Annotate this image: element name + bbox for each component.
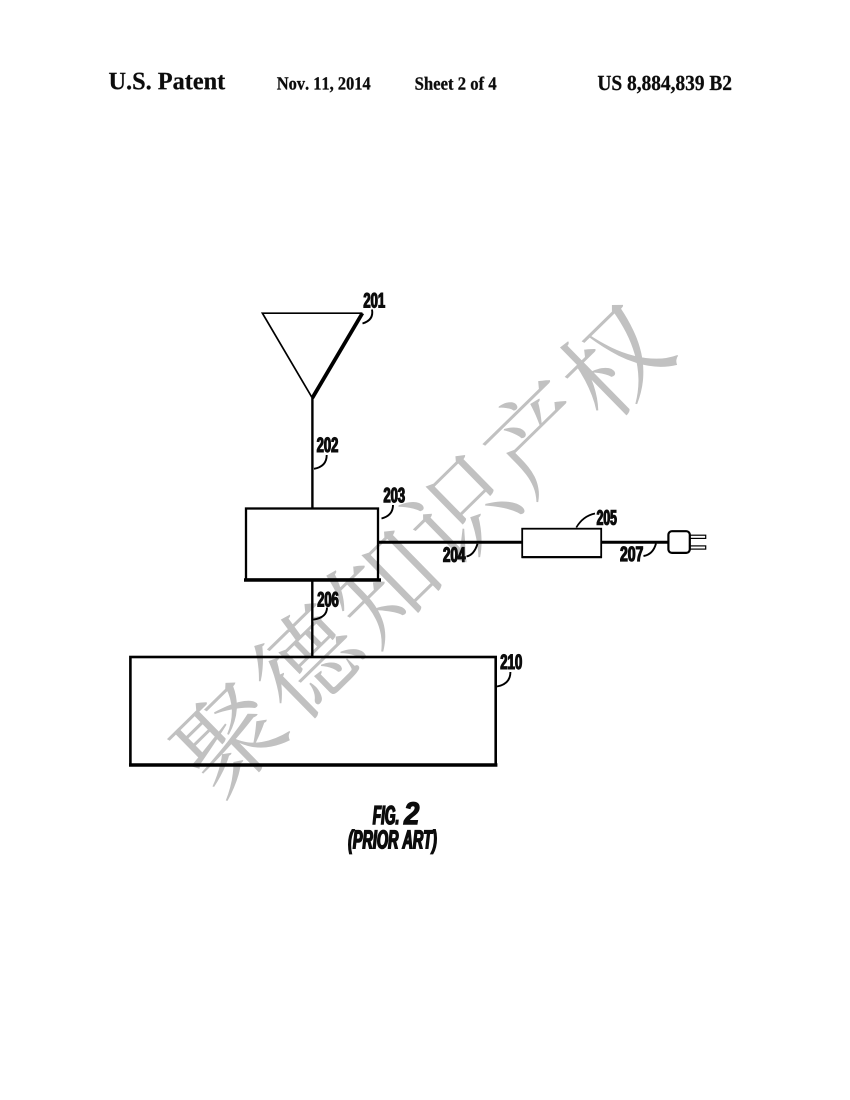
box 210	[129, 657, 497, 765]
leader 206	[314, 608, 328, 620]
wire 204	[379, 541, 522, 544]
leader 210	[497, 672, 510, 687]
wire 202	[311, 398, 313, 508]
box 203	[244, 509, 381, 581]
caption FIG.	[373, 806, 398, 825]
label 207	[621, 546, 643, 561]
label 202	[317, 437, 338, 452]
plug 207 body	[668, 531, 689, 553]
label 206	[318, 592, 339, 607]
leader 202	[314, 455, 327, 469]
leader 205	[576, 514, 595, 528]
label 201	[364, 293, 385, 308]
leader 201	[363, 310, 373, 324]
label 204	[443, 547, 465, 562]
label 203	[384, 488, 405, 503]
caption 2	[404, 802, 420, 824]
caption (PRIOR ART)	[349, 830, 437, 854]
label 210	[501, 654, 522, 669]
wire 206	[311, 580, 313, 657]
plug prong 1	[690, 535, 705, 538]
wire to plug	[602, 541, 668, 544]
leader 203	[382, 505, 394, 519]
leader 207	[644, 544, 657, 557]
plug prong 2	[690, 546, 705, 549]
watermark 聚德知识产权	[162, 292, 683, 803]
leader 204	[467, 544, 478, 557]
antenna 201	[262, 313, 362, 398]
header: U.S. Patent	[109, 73, 225, 90]
header: date Nov. 11, 2014	[277, 77, 370, 92]
label 205	[597, 510, 617, 525]
header: Sheet 2 of 4	[415, 77, 496, 90]
box 205	[522, 529, 601, 557]
header: patent number US 8,884,839 B2	[598, 76, 731, 94]
